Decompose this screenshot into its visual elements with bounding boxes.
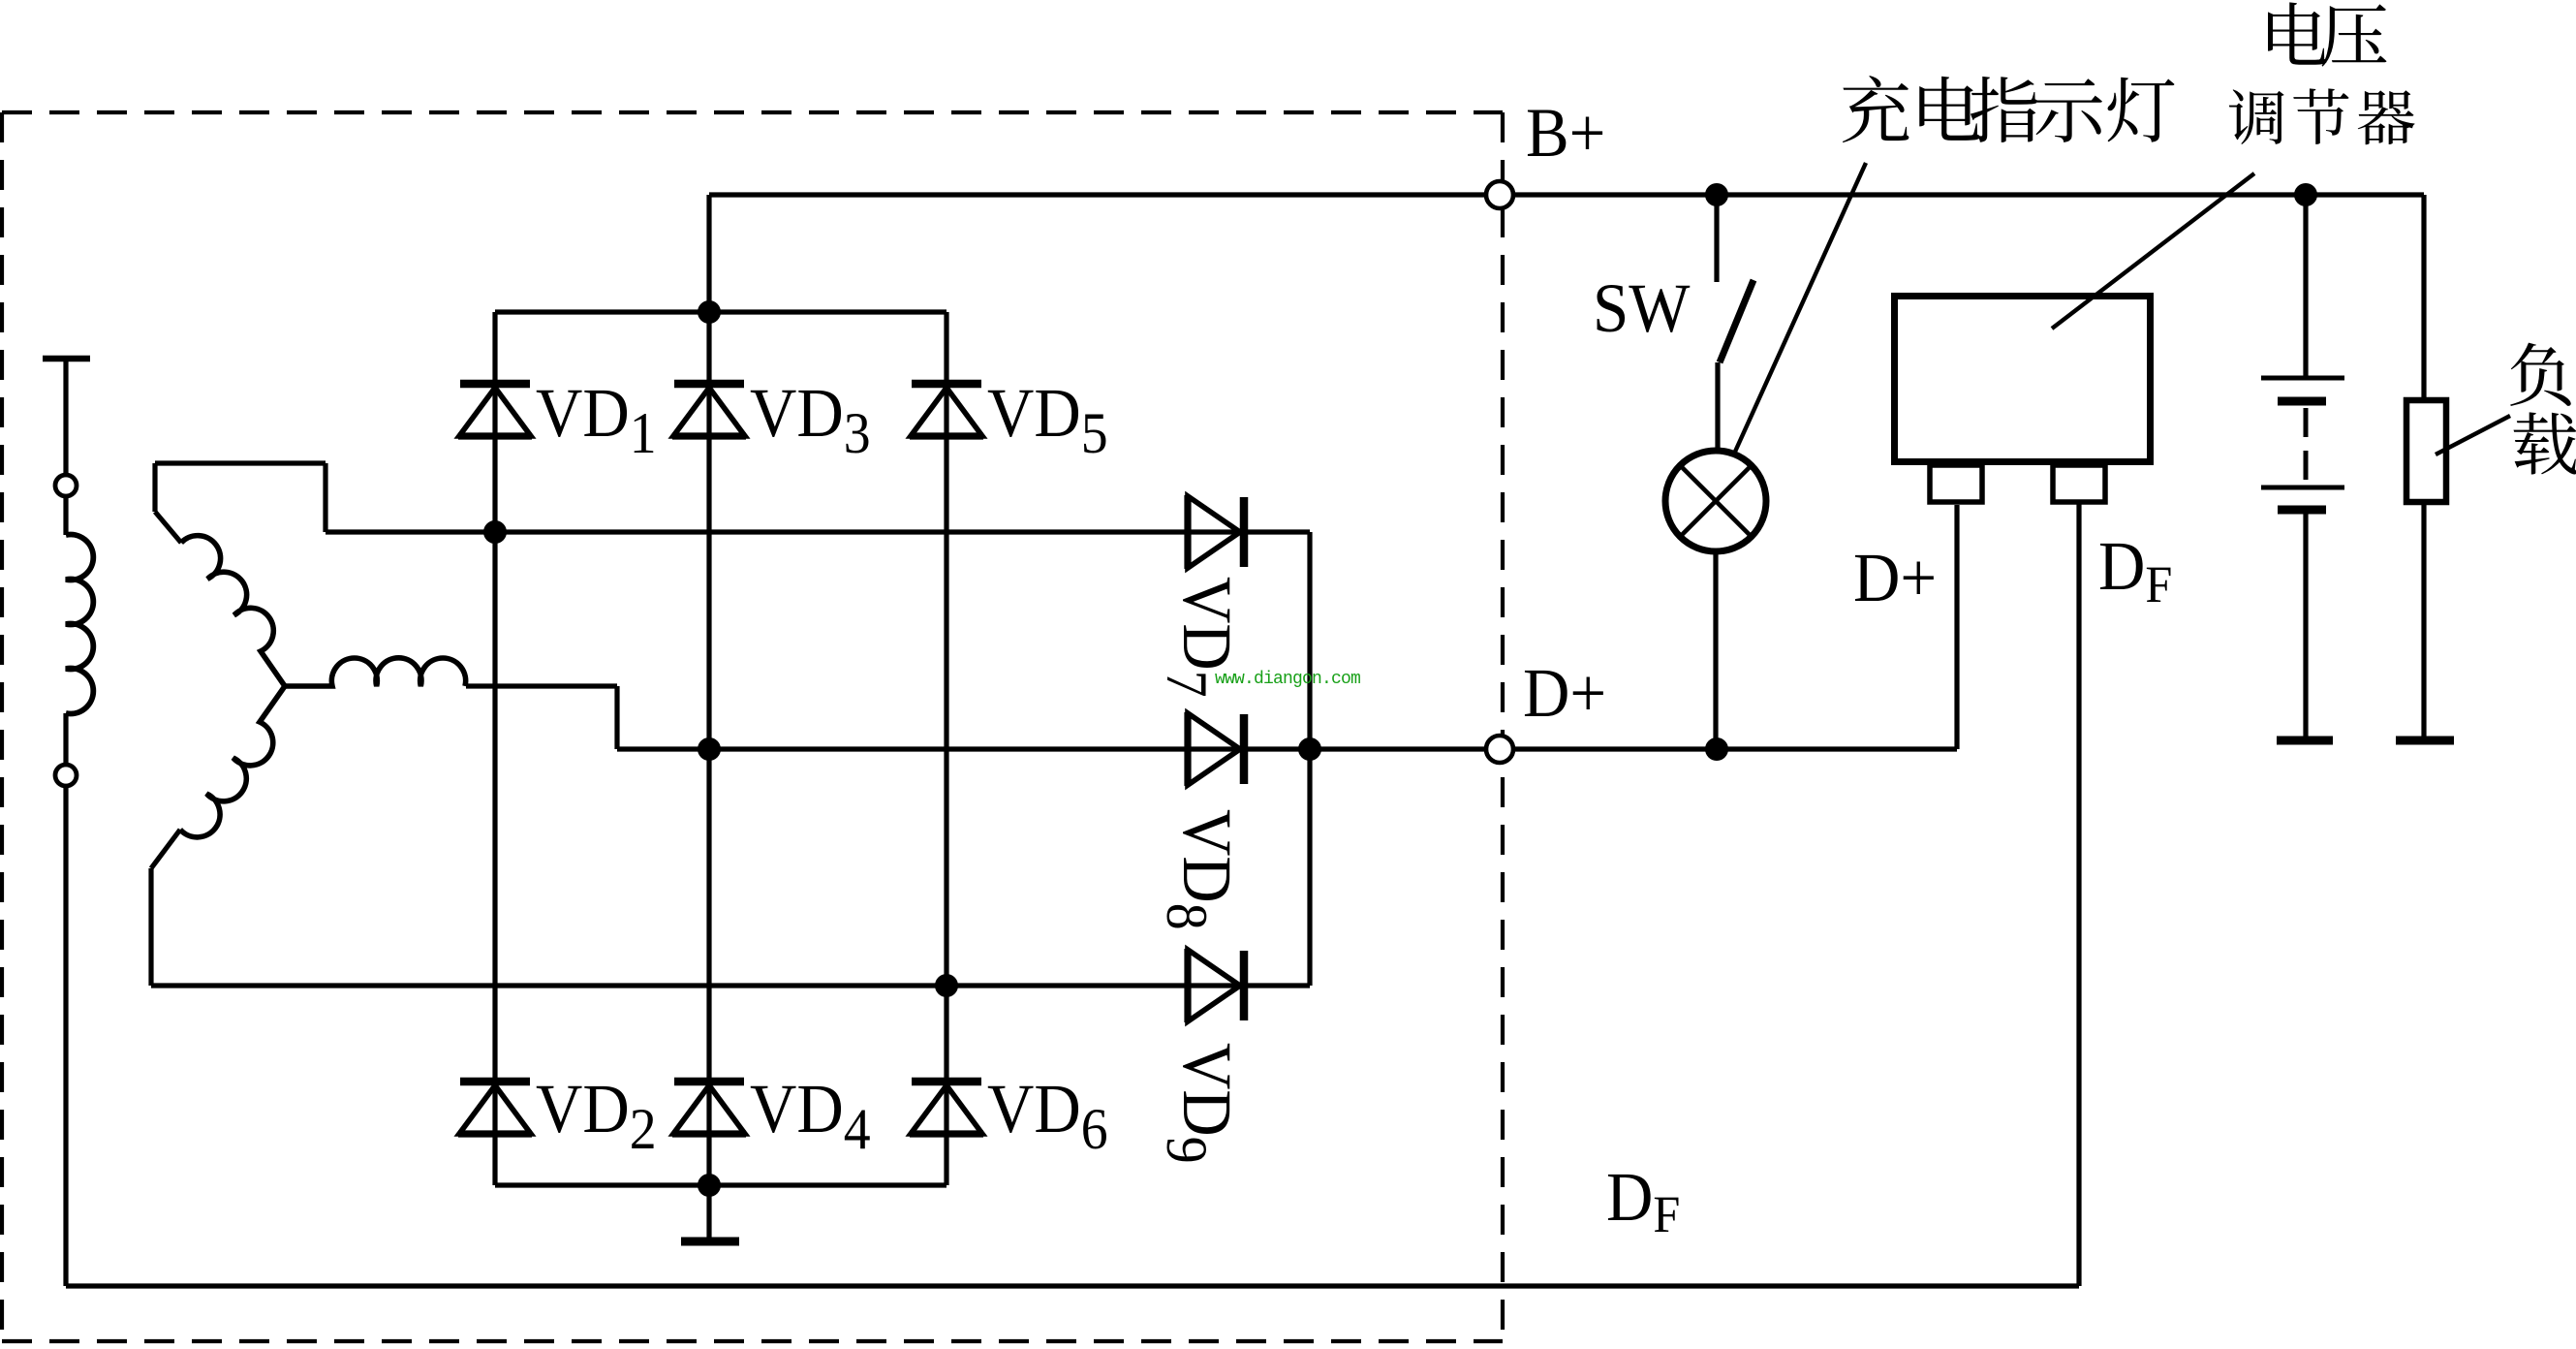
wire stator phase A left vertical (152, 463, 157, 512)
wire B+ riser from top rail (706, 195, 711, 312)
alternator case dashed border bottom (2, 1339, 1503, 1343)
diode VD9 (1188, 949, 1244, 1022)
junction phase C / VD5 (935, 974, 958, 997)
stator phase B winding (285, 658, 466, 686)
battery plate short (bottom cell -) (2278, 506, 2326, 515)
leader line to voltage regulator (2052, 173, 2254, 329)
label 负载 (load), stacked (2510, 343, 2571, 406)
stator phase C winding (180, 686, 285, 837)
brush (upper slip ring) (55, 475, 77, 496)
wire battery negative lead (2303, 514, 2308, 737)
svg-text:www.diangon.com: www.diangon.com (1215, 670, 1360, 689)
junction VD8 cathode / D+ (1298, 737, 1321, 761)
battery plate long (top cell +) (2261, 376, 2344, 381)
diode VD8 (1188, 712, 1244, 786)
svg-text:D+: D+ (1523, 655, 1606, 733)
wire lamp to D+ rail (1713, 551, 1718, 749)
wire VD5/VD6 column (944, 312, 948, 1185)
junction phase B / VD3 (D+ node) (698, 737, 721, 761)
terminal D+ (1486, 736, 1513, 763)
junction D+ rail / lamp (1705, 737, 1728, 761)
charge indicator lamp (1665, 451, 1766, 551)
alternator case dashed border left (0, 112, 4, 1341)
svg-text:D+: D+ (1853, 540, 1937, 617)
wire stator phase B drop (614, 686, 619, 749)
label 充电指示灯 (charge indicator lamp) (1843, 76, 1909, 142)
load resistor (2406, 400, 2446, 502)
wire DF bottom run (66, 1283, 2079, 1288)
diode VD1 (458, 384, 532, 436)
battery plate short (top cell -) (2278, 397, 2326, 406)
diode VD7 (1188, 495, 1244, 569)
wire phase C node row to VD9 (151, 983, 1310, 988)
label 电压调节器 (voltage regulator), two lines (2268, 2, 2327, 64)
junction phase A / VD1 (483, 520, 507, 544)
junction B+ / SW branch (1705, 183, 1728, 206)
voltage regulator box (1895, 297, 2151, 462)
wire SW to lamp (1715, 362, 1720, 448)
wire field coil to brush (63, 713, 68, 765)
wire VD1/VD2 column (492, 312, 497, 1185)
wire D+ to regulator tab (1954, 505, 1959, 749)
svg-text:SW: SW (1593, 270, 1691, 348)
wire VD7/VD8/VD9 cathode connector (1307, 532, 1312, 986)
wire stator phase A drop (323, 463, 327, 532)
ground (bridge negative) (681, 1238, 739, 1246)
wire bridge ground stub (706, 1185, 711, 1238)
switch SW blade (1720, 280, 1754, 362)
leader line to load (2436, 416, 2510, 455)
field winding top terminal bar (43, 356, 90, 362)
wire phase B node row / D+ rail (617, 746, 1957, 751)
battery plate long (bottom cell +) (2261, 486, 2344, 490)
wire SW upper contact (1714, 195, 1719, 282)
wire DF from regulator (2076, 502, 2081, 1286)
alternator case dashed border top (2, 110, 1503, 114)
alternator case dashed border right (1501, 112, 1505, 1341)
wire stator phase B horizontal (466, 683, 617, 688)
wire stator phase C vertical (148, 868, 153, 986)
ground (battery) (2277, 737, 2333, 745)
wire bridge bottom rail (495, 1182, 947, 1187)
diode VD3 (672, 384, 746, 436)
stator phase A winding (181, 536, 285, 686)
wire VD3/VD4 column (706, 312, 711, 1185)
junction top rail / B+ riser (698, 300, 721, 324)
wire stator phase A top horizontal (155, 460, 326, 465)
junction bottom rail / ground (698, 1174, 721, 1197)
diode VD5 (910, 384, 983, 436)
battery cells dashed link (2304, 408, 2309, 483)
wire stator phase C diagonal (151, 830, 180, 868)
wire load branch upper (2421, 195, 2426, 397)
diode VD4 (672, 1082, 746, 1134)
wire bridge top rail (495, 309, 947, 314)
brush (lower slip ring) (55, 765, 77, 786)
wire stator phase A diagonal (155, 512, 181, 543)
wire brush to field coil (63, 496, 68, 535)
wire phase A node row to VD7 (326, 529, 1310, 534)
wire battery branch upper (2303, 195, 2308, 376)
field winding coil (66, 535, 93, 714)
regulator terminal tab DF (2053, 465, 2105, 502)
wire field lower lead down to DF wire (63, 786, 68, 1286)
leader line to charge indicator lamp (1735, 163, 1866, 452)
wire B+ rail (709, 192, 2424, 197)
wire field top lead (63, 359, 68, 474)
terminal B+ (1486, 181, 1513, 208)
svg-text:B+: B+ (1526, 95, 1605, 173)
regulator terminal tab D+ (1930, 465, 1982, 502)
diode VD2 (458, 1082, 532, 1134)
wire load lower lead (2421, 502, 2426, 737)
ground (load) (2396, 737, 2454, 745)
diode VD6 (910, 1082, 983, 1134)
junction B+ / battery (2294, 183, 2317, 206)
